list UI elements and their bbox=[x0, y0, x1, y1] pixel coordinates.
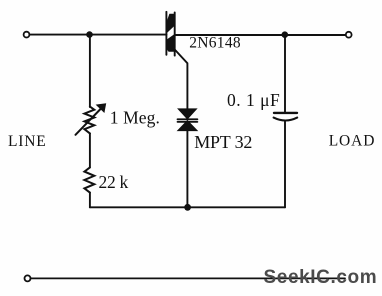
svg-text:22 k: 22 k bbox=[99, 172, 129, 192]
resistor 22 k bbox=[84, 167, 94, 192]
node: junction of top line and phase-shift branch bbox=[86, 31, 93, 38]
svg-text:LINE: LINE bbox=[8, 133, 47, 150]
wire: middle bus connecting branches bbox=[90, 206, 285, 208]
diac MPT 32 bbox=[178, 109, 198, 131]
triac 2N6148 bbox=[166, 12, 187, 110]
wire: from capacitor down to middle bus bbox=[284, 122, 286, 208]
wire: top line, LINE terminal to triac bbox=[30, 34, 167, 36]
svg-text:LOAD: LOAD bbox=[329, 132, 376, 149]
terminal: top-right LOAD bbox=[346, 32, 352, 38]
svg-text:0. 1 μF: 0. 1 μF bbox=[227, 90, 280, 110]
wire: between potentiometer and 22 k resistor bbox=[89, 133, 91, 167]
capacitor 0.1 uF bbox=[274, 113, 298, 121]
wire: bottom line bbox=[31, 277, 345, 279]
node: junction of diac branch and middle bus bbox=[184, 204, 191, 211]
wire: potentiometer branch down from top junction bbox=[89, 35, 91, 107]
svg-text:SeekIC.com: SeekIC.com bbox=[264, 267, 378, 288]
wire: top line, triac to LOAD terminal bbox=[175, 34, 346, 36]
wire: capacitor branch down from top junction bbox=[284, 35, 286, 112]
node: junction of top line and capacitor branch bbox=[282, 31, 289, 38]
wire: from diac down to middle bus bbox=[186, 131, 188, 208]
wire: from 22 k resistor down to middle bus bbox=[89, 193, 91, 208]
potentiometer 1 Meg (variable resistor) bbox=[76, 103, 107, 135]
terminal: top-left LINE bbox=[24, 32, 30, 38]
svg-text:MPT 32: MPT 32 bbox=[194, 132, 252, 152]
wire: gate lead of triac bbox=[175, 50, 188, 111]
wiper arrow of potentiometer bbox=[76, 109, 101, 135]
svg-text:2N6148: 2N6148 bbox=[189, 35, 241, 52]
svg-text:1 Meg.: 1 Meg. bbox=[110, 107, 160, 127]
terminal: bottom-left LINE bbox=[25, 275, 31, 281]
